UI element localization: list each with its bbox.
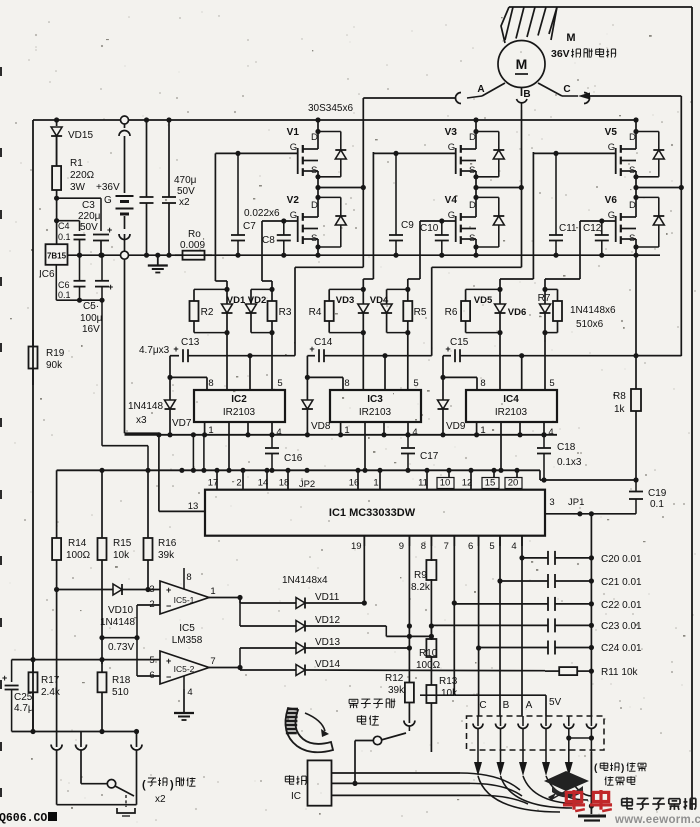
- svg-text:8: 8: [344, 378, 349, 389]
- svg-text:G: G: [448, 142, 455, 153]
- capacitor 470u 50V x2 first: [144, 117, 149, 122]
- capacitor C18: [541, 432, 546, 437]
- IC1 pin 3 JP1: [545, 513, 636, 515]
- svg-text:): ): [170, 779, 174, 791]
- svg-text:9: 9: [399, 541, 404, 552]
- mosfet V6: [633, 195, 638, 200]
- svg-text:VD14: VD14: [315, 659, 340, 670]
- svg-text:8: 8: [186, 572, 191, 583]
- wire brake loop: [56, 750, 58, 805]
- driver IC2 IR2103: [194, 390, 285, 422]
- brake lever hooks: [56, 743, 58, 747]
- svg-text:V5: V5: [605, 127, 618, 138]
- resistor R8 1k: [635, 255, 637, 388]
- hall IC output wires: [332, 772, 461, 774]
- svg-text:(: (: [142, 779, 146, 791]
- svg-text:R3: R3: [279, 307, 292, 318]
- svg-text:C15: C15: [450, 337, 469, 348]
- diode VD2: [251, 288, 272, 290]
- svg-text:IC1 MC33033DW: IC1 MC33033DW: [329, 507, 416, 519]
- wire 7815 output loop to C6 C5 bottoms: [55, 265, 57, 300]
- svg-text:VD13: VD13: [315, 637, 340, 648]
- diode VD10 1N4148: [54, 587, 59, 592]
- capacitor C23: [431, 624, 548, 626]
- hall connector hooks: [477, 716, 479, 726]
- svg-text:VD10: VD10: [108, 605, 133, 616]
- svg-text:C10: C10: [420, 223, 439, 234]
- svg-text:5: 5: [489, 541, 494, 552]
- svg-text:50V: 50V: [80, 222, 98, 233]
- svg-text:R19: R19: [46, 348, 65, 359]
- svg-text:R7: R7: [538, 293, 551, 304]
- svg-text:30S345x6: 30S345x6: [308, 103, 353, 114]
- svg-text:G: G: [290, 142, 297, 153]
- svg-text:D: D: [629, 132, 636, 143]
- svg-text:2: 2: [236, 478, 241, 489]
- wire pin7 column: [453, 536, 455, 696]
- ground symbol IC5 pin4: [183, 676, 185, 689]
- svg-text:17: 17: [208, 478, 219, 489]
- svg-text:0.73V: 0.73V: [108, 642, 134, 653]
- wire V5 gate feed: [532, 152, 534, 279]
- svg-text:R4: R4: [309, 307, 322, 318]
- svg-text:C24 0.01: C24 0.01: [601, 643, 642, 654]
- motor M 36V brushless: [498, 41, 545, 88]
- svg-text:39k: 39k: [388, 685, 405, 696]
- resistor R7: [545, 288, 558, 290]
- svg-text:C: C: [479, 700, 486, 711]
- wire pin5 row: [12, 659, 160, 661]
- capacitor C10: [439, 218, 444, 223]
- svg-text:M: M: [566, 32, 575, 44]
- scan noise speckles: [445, 24, 446, 25]
- wire midpoint of V5 V6: [635, 177, 637, 198]
- svg-text:−: −: [166, 672, 171, 682]
- capacitor C11: [553, 151, 558, 156]
- svg-text:G: G: [104, 195, 112, 206]
- svg-text:C6: C6: [58, 280, 70, 290]
- mosfet V4: [473, 195, 478, 200]
- svg-text:1N4148x4: 1N4148x4: [282, 575, 328, 586]
- wire battery node down to VCC bus row1: [124, 260, 126, 434]
- svg-text:A: A: [477, 84, 484, 95]
- phase B connector hook: [517, 99, 528, 103]
- svg-text:VD4: VD4: [370, 295, 389, 306]
- phase A connector hook: [456, 93, 462, 104]
- svg-text:VD2: VD2: [248, 295, 266, 306]
- resistor R18 510: [101, 660, 103, 673]
- svg-text:D: D: [311, 132, 318, 143]
- svg-text:C5·: C5·: [83, 301, 99, 312]
- node C4 tap: [54, 218, 59, 223]
- body diode of V3: [476, 131, 499, 133]
- wire V6 gate feed: [579, 221, 581, 279]
- svg-text:16: 16: [349, 478, 360, 489]
- svg-text:S: S: [311, 233, 317, 244]
- svg-text:IC3: IC3: [367, 394, 383, 405]
- svg-text:−: −: [166, 601, 171, 611]
- svg-text:3W: 3W: [70, 182, 86, 193]
- svg-text:S: S: [469, 165, 475, 176]
- svg-text:A: A: [526, 700, 533, 711]
- svg-text:): ): [621, 763, 624, 774]
- svg-text:10: 10: [440, 478, 451, 489]
- svg-text:www.eeworm.com: www.eeworm.com: [614, 814, 700, 826]
- limit run switch: [408, 726, 410, 731]
- svg-text:VD1: VD1: [227, 295, 246, 306]
- svg-text:C: C: [563, 84, 570, 95]
- svg-text:100Ω: 100Ω: [66, 550, 91, 561]
- svg-text:4: 4: [412, 427, 417, 438]
- body diode of V4: [476, 196, 499, 198]
- wire short links between buses: [192, 435, 194, 471]
- body diode of V1: [318, 131, 341, 133]
- resistor R16 39k: [147, 470, 149, 530]
- svg-text:20: 20: [508, 478, 519, 489]
- motor phase legs: [482, 83, 505, 96]
- wire pin9 column R12 and limit switch: [408, 536, 410, 682]
- svg-text:13: 13: [188, 501, 199, 512]
- svg-text:220μ: 220μ: [78, 211, 101, 222]
- wire bottom ground row: [12, 731, 137, 733]
- wire pin6 column to hall C: [478, 536, 480, 716]
- svg-text:0.022x6: 0.022x6: [244, 208, 280, 219]
- wire C5 node down to ground bus row2: [101, 300, 103, 446]
- resistor R14 100: [56, 470, 58, 530]
- svg-text:VD6: VD6: [508, 307, 526, 318]
- svg-text:4.7μx3: 4.7μx3: [139, 345, 170, 356]
- svg-text:0.1: 0.1: [58, 290, 71, 300]
- svg-text:0.1x3: 0.1x3: [557, 457, 582, 468]
- capacitor C16: [269, 432, 274, 437]
- wire VS riser bridge2: [432, 266, 522, 268]
- svg-text:R12: R12: [385, 673, 404, 684]
- svg-text:IC5-1: IC5-1: [174, 595, 195, 605]
- svg-text:8: 8: [421, 541, 426, 552]
- capacitor C24: [479, 647, 548, 649]
- svg-text:C25: C25: [14, 692, 33, 703]
- svg-text:10k: 10k: [441, 688, 458, 699]
- capacitor C3 220u 50V: [93, 234, 109, 236]
- svg-text:11: 11: [418, 478, 428, 489]
- svg-text:IR2103: IR2103: [359, 407, 392, 418]
- scan edge artifacts left border: [0, 67, 2, 76]
- diode VD14: [240, 669, 296, 671]
- resistor R19 90k: [32, 330, 34, 347]
- controller IC1 MC33033DW: [205, 490, 545, 536]
- svg-text:C18: C18: [557, 442, 576, 453]
- svg-text:+36V: +36V: [96, 182, 120, 193]
- diode VD4: [387, 288, 408, 290]
- svg-text:G: G: [290, 210, 297, 221]
- svg-text:39k: 39k: [158, 550, 175, 561]
- resistor R5: [407, 289, 409, 301]
- driver IC3 IR2103: [330, 390, 421, 422]
- capacitor C25 4.7u: [11, 660, 13, 682]
- diode VD11: [240, 602, 296, 604]
- svg-text:1N4148: 1N4148: [100, 617, 135, 628]
- capacitor C19 0.1: [635, 480, 637, 492]
- resistor R3: [271, 289, 273, 301]
- svg-text:3: 3: [549, 497, 554, 508]
- svg-text:IC: IC: [291, 791, 301, 802]
- watermark dianzi xiazai zhan: [622, 798, 633, 800]
- svg-text:R6: R6: [445, 307, 458, 318]
- mosfet V5: [633, 117, 638, 122]
- label xiansu yunxing kaiguan: [349, 698, 358, 700]
- svg-text:220Ω: 220Ω: [70, 170, 95, 181]
- svg-text:R14: R14: [68, 538, 87, 549]
- wire VS riser bridge1: [295, 266, 363, 268]
- capacitor C17: [405, 432, 410, 437]
- ground symbol main: [155, 253, 160, 258]
- svg-text:VD7: VD7: [172, 418, 192, 429]
- svg-text:+: +: [173, 344, 178, 354]
- hall wire curves to sensor: [478, 776, 560, 812]
- hall wire arrows: [474, 762, 482, 776]
- svg-text:S: S: [311, 165, 317, 176]
- svg-text:C19: C19: [648, 488, 667, 499]
- resistor R15 10k: [101, 470, 103, 530]
- wire far right vertical from motor frame: [691, 7, 693, 810]
- capacitor C12: [599, 218, 604, 223]
- svg-text:IR2103: IR2103: [223, 407, 256, 418]
- svg-text:4: 4: [511, 541, 516, 552]
- wire V4 gate feed: [419, 221, 421, 279]
- svg-text:+: +: [107, 225, 112, 235]
- capacitor C14: [318, 349, 320, 362]
- svg-text:V4: V4: [445, 195, 458, 206]
- svg-text:D: D: [469, 200, 476, 211]
- svg-text:5V: 5V: [549, 697, 562, 708]
- diode VD9: [442, 356, 444, 378]
- IC1 top pin stubs: [216, 470, 218, 489]
- wire IC5-1 inverting input: [137, 604, 160, 606]
- svg-text:Ro: Ro: [188, 229, 201, 240]
- svg-text:0.009: 0.009: [180, 240, 205, 251]
- svg-text:D: D: [311, 200, 318, 211]
- svg-text:0.1: 0.1: [58, 232, 71, 242]
- svg-text:+: +: [2, 673, 7, 683]
- svg-text:G: G: [608, 142, 615, 153]
- capacitor C4 0.1: [74, 234, 86, 236]
- resistor R17 2.4k: [32, 660, 34, 673]
- svg-text:IR2103: IR2103: [495, 407, 528, 418]
- svg-text:R10: R10: [419, 648, 438, 659]
- svg-text:IC6: IC6: [39, 269, 55, 280]
- wire VCC bus row1: [125, 434, 558, 436]
- svg-text:4.7μ: 4.7μ: [14, 703, 34, 714]
- svg-text:V3: V3: [445, 127, 458, 138]
- diode VD1: [226, 289, 228, 304]
- svg-text:100μ: 100μ: [80, 313, 103, 324]
- resistor R6: [466, 288, 500, 290]
- svg-text:C21 0.01: C21 0.01: [601, 577, 642, 588]
- mosfet V1: [315, 117, 320, 122]
- svg-text:R11 10k: R11 10k: [601, 667, 639, 678]
- resistor R11 10k: [545, 670, 559, 672]
- svg-text:VD12: VD12: [315, 615, 340, 626]
- wire bootstrap row C15: [443, 355, 451, 357]
- svg-text:1N4148: 1N4148: [128, 401, 163, 412]
- capacitor C6 0.1: [77, 253, 82, 258]
- svg-text:+: +: [166, 656, 171, 666]
- svg-text:B: B: [523, 89, 530, 100]
- wire bootstrap row C13: [170, 355, 179, 357]
- svg-text:8: 8: [480, 378, 485, 389]
- svg-text:7: 7: [210, 656, 215, 667]
- svg-text:VD9: VD9: [446, 421, 466, 432]
- svg-text:R18: R18: [112, 675, 131, 686]
- wire 5V column: [454, 694, 546, 696]
- node C3 tap: [54, 196, 59, 201]
- wire 0.73V node: [102, 637, 137, 639]
- wire V2 gate feed: [261, 221, 263, 281]
- svg-text:C8: C8: [262, 235, 275, 246]
- svg-text:3: 3: [149, 584, 154, 595]
- svg-text:C14: C14: [314, 337, 333, 348]
- svg-text:C4: C4: [58, 221, 70, 231]
- wire VD12 jog: [385, 626, 387, 636]
- op-amp IC5-2: [160, 651, 209, 684]
- svg-text:R16: R16: [158, 538, 177, 549]
- svg-text:D: D: [469, 132, 476, 143]
- capacitor C20: [522, 557, 548, 559]
- battery G +36V branch: [121, 116, 129, 124]
- svg-text:x2: x2: [155, 794, 166, 805]
- svg-text:R17: R17: [41, 675, 60, 686]
- resistor Ro 0.009 shunt: [175, 254, 183, 256]
- capacitor C15: [454, 349, 456, 362]
- svg-text:1k: 1k: [614, 404, 626, 415]
- svg-text:B: B: [503, 700, 510, 711]
- svg-text:M: M: [516, 56, 528, 72]
- svg-text:16V: 16V: [82, 324, 100, 335]
- regulator IC6 7B15: [46, 244, 68, 265]
- svg-text:x2: x2: [179, 197, 190, 208]
- wire +36V top rail: [33, 119, 636, 121]
- wire hall sensor ground: [590, 752, 592, 814]
- diode VD12: [240, 625, 296, 627]
- svg-text:R1: R1: [70, 158, 83, 169]
- svg-text:10k: 10k: [113, 550, 130, 561]
- battery plates: [116, 195, 134, 197]
- svg-text:1N4148x6: 1N4148x6: [570, 305, 616, 316]
- svg-text:7B15: 7B15: [47, 252, 67, 261]
- diode VD15: [54, 117, 59, 122]
- svg-text:C23 0.01: C23 0.01: [601, 621, 642, 632]
- svg-text:12: 12: [462, 478, 473, 489]
- body diode of V5: [636, 131, 659, 133]
- diode VD7: [169, 356, 171, 378]
- body diode of V2: [318, 196, 341, 198]
- resistor R2: [194, 288, 227, 290]
- wire phase A vertical to V1 V2 midpoint and VS1: [362, 98, 364, 267]
- svg-text:V2: V2: [287, 195, 300, 206]
- mosfet V3: [473, 117, 478, 122]
- svg-text:+: +: [309, 344, 314, 354]
- svg-text:0.1: 0.1: [650, 499, 664, 510]
- svg-text:5: 5: [277, 378, 282, 389]
- svg-text:5: 5: [413, 378, 418, 389]
- svg-text:LM358: LM358: [172, 635, 203, 646]
- svg-text:+: +: [108, 282, 113, 292]
- svg-text:VD15: VD15: [68, 130, 93, 141]
- svg-text:100Ω: 100Ω: [416, 660, 441, 671]
- svg-text:4: 4: [548, 427, 553, 438]
- svg-text:IC5: IC5: [179, 623, 195, 634]
- wire V1 gate feed: [214, 153, 216, 281]
- svg-text:C7: C7: [243, 221, 256, 232]
- svg-text:Q606.CO: Q606.CO: [0, 812, 47, 825]
- wire phase B vertical: [521, 110, 523, 267]
- diode VD8: [306, 356, 308, 378]
- svg-text:7: 7: [444, 541, 449, 552]
- svg-text:R15: R15: [113, 538, 132, 549]
- resistor R1: [56, 136, 58, 166]
- svg-text:36V: 36V: [551, 48, 570, 60]
- svg-text:JP1: JP1: [568, 497, 584, 508]
- svg-text:C20 0.01: C20 0.01: [601, 554, 642, 565]
- wire pair outputs into driver tops: [226, 333, 228, 390]
- watermark chongchong red characters: [566, 792, 581, 801]
- svg-text:4: 4: [187, 687, 192, 698]
- hall connector dashed box: [467, 716, 605, 750]
- svg-text:VD11: VD11: [315, 592, 340, 603]
- capacitor C8: [281, 218, 286, 223]
- svg-text:15: 15: [485, 478, 496, 489]
- wire ground bus row2: [57, 469, 540, 471]
- svg-text:+: +: [166, 585, 171, 595]
- wire phase C vertical riser: [680, 96, 682, 356]
- svg-text:D: D: [629, 200, 636, 211]
- svg-text:C13: C13: [181, 337, 200, 348]
- svg-text:1: 1: [210, 586, 215, 597]
- svg-text:x3: x3: [136, 415, 147, 426]
- svg-text:18: 18: [279, 478, 290, 489]
- svg-text:V6: V6: [605, 195, 618, 206]
- svg-text:S: S: [629, 165, 635, 176]
- svg-text:VD3: VD3: [336, 295, 354, 306]
- svg-text:5: 5: [149, 655, 154, 666]
- diode VD5: [499, 289, 501, 304]
- svg-text:IC5-2: IC5-2: [174, 664, 195, 674]
- throttle grip symbol hatched wedge: [285, 708, 333, 752]
- svg-text:JP2: JP2: [299, 479, 315, 490]
- svg-text:50V: 50V: [177, 186, 195, 197]
- driver IC4 IR2103: [466, 390, 557, 422]
- svg-text:510x6: 510x6: [576, 319, 604, 330]
- svg-text:19: 19: [351, 541, 362, 552]
- watermark graduation cap logo: [544, 771, 589, 791]
- svg-text:R2: R2: [201, 307, 214, 318]
- svg-text:R5: R5: [414, 307, 427, 318]
- diode VD3: [362, 289, 364, 304]
- svg-text:C11: C11: [559, 223, 577, 234]
- svg-text:V1: V1: [287, 127, 300, 138]
- wire bootstrap row C14: [307, 355, 315, 357]
- svg-text:G: G: [608, 210, 615, 221]
- op-amp IC5-1: [160, 581, 209, 614]
- wire left vertical from top rail to R19 and IC5 area: [32, 120, 34, 732]
- svg-text:C3: C3: [82, 200, 95, 211]
- wire IC5-1 output: [209, 597, 240, 599]
- phase C connector hook with arrow: [584, 93, 590, 104]
- svg-text:IC4: IC4: [503, 394, 519, 405]
- mosfet V2: [315, 195, 320, 200]
- svg-text:IC2: IC2: [231, 394, 247, 405]
- svg-text:C9: C9: [401, 220, 414, 231]
